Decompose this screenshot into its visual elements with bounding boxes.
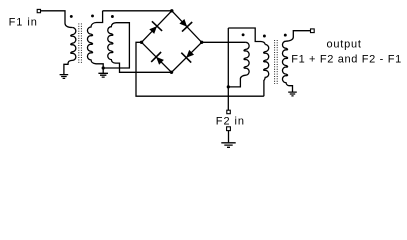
svg-text:output: output (327, 38, 362, 50)
svg-text:F2 in: F2 in (216, 115, 245, 127)
svg-text:F1 + F2 and F2 - F1: F1 + F2 and F2 - F1 (291, 53, 402, 65)
svg-text:F1 in: F1 in (9, 16, 38, 28)
